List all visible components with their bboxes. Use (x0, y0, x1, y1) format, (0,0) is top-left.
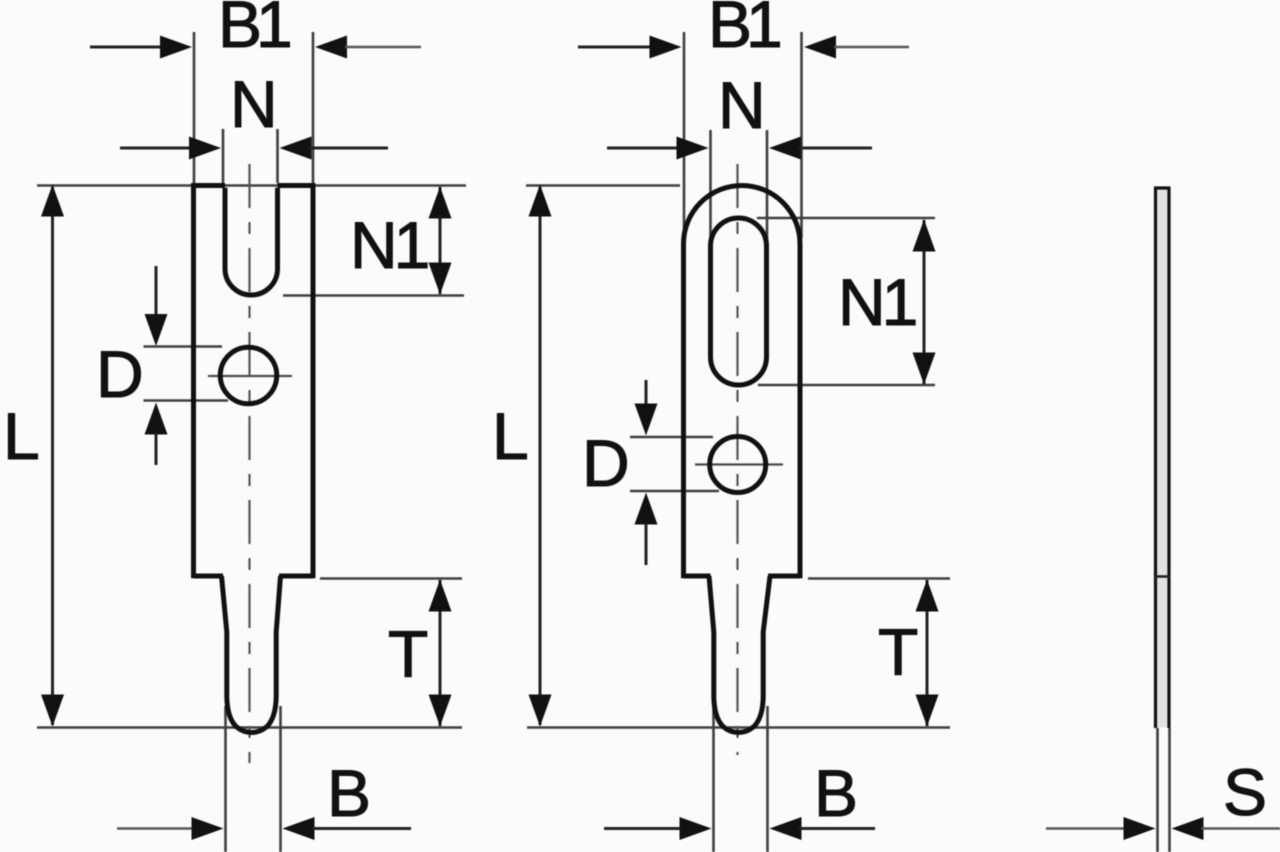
vertical centerline (dash-dot) (248, 164, 250, 763)
dimension N1 top arrowhead (middle) (913, 220, 936, 252)
dimension L dimension line shaft (middle) (539, 187, 542, 725)
dimension B left arrowhead (192, 817, 224, 840)
dimension L top arrowhead (middle) (529, 185, 552, 217)
tab body outline: top edge right segment (278, 183, 316, 188)
svg-text:N1: N1 (838, 265, 916, 339)
dimension T bottom arrowhead (429, 695, 452, 727)
dimension B dimension line left shaft (middle) (604, 827, 681, 830)
dimension D upper arrowhead (pointing down) (145, 314, 168, 346)
svg-text:L: L (3, 399, 40, 473)
dimension T top extension line (middle) (808, 577, 950, 580)
closed oval slot outline (middle) (711, 218, 767, 385)
dimension N1 bottom extension line (middle) (758, 384, 935, 387)
dimension N1 bottom arrowhead (429, 263, 452, 295)
svg-text:S: S (1223, 755, 1267, 829)
dimension T top arrowhead (429, 580, 452, 612)
dimension L bottom arrowhead (middle) (529, 695, 552, 727)
dimension N left extension line (222, 129, 225, 183)
dimension T top arrowhead (middle) (916, 580, 939, 612)
dimension S left arrowhead (1124, 817, 1156, 840)
dimension B right arrowhead (middle) (770, 817, 802, 840)
hole horizontal centerline (middle) (695, 463, 783, 465)
mounting hole (middle) (710, 437, 766, 493)
dimension B1 dimension line right shaft (345, 46, 421, 49)
dimension N right arrowhead (middle) (769, 137, 801, 160)
dimension T dimension line shaft (439, 580, 442, 726)
dimension B left arrowhead (middle) (680, 817, 712, 840)
side view step tick mark (1155, 575, 1171, 578)
side view top edge (1154, 186, 1171, 189)
dimension B1 dimension line left shaft (90, 46, 166, 49)
dimension N dimension line right shaft (309, 147, 388, 150)
dimension N dimension line right shaft (middle) (799, 147, 872, 150)
dimension N right arrowhead (280, 137, 312, 160)
tab body outline: right edge (311, 183, 316, 578)
side view left edge (1154, 188, 1157, 728)
top extension line (middle L datum) (526, 184, 680, 187)
dimension B1 right extension line (middle) (800, 32, 803, 238)
dimension N left arrowhead (middle) (677, 137, 709, 160)
dimension N1 top arrowhead (429, 187, 452, 219)
dimension B1 left arrowhead (160, 36, 192, 59)
bottom extension line (L and T datum) (37, 726, 462, 729)
tab body outline with rounded top (middle) (684, 186, 801, 579)
dimension N left extension line (middle) (709, 130, 712, 244)
dimension N1 bottom arrowhead (middle) (913, 353, 936, 385)
dimension B right extension line (middle) (766, 706, 769, 852)
dimension B dimension line left shaft (117, 827, 194, 830)
svg-text:L: L (492, 399, 529, 473)
open U slot outline (225, 188, 278, 295)
dimension D upper arrow shaft (155, 266, 158, 320)
solder pin outline (222, 576, 281, 733)
tab body outline: left edge (191, 183, 196, 578)
dimension N left arrowhead (189, 137, 221, 160)
dimension D bottom extension line (middle) (630, 490, 719, 493)
dimension N dimension line left shaft (120, 147, 193, 150)
dimension B right arrowhead (283, 817, 315, 840)
dimension D top extension line (144, 345, 223, 348)
svg-text:B: B (814, 756, 858, 830)
dimension B1 dimension line right shaft (middle) (834, 46, 909, 49)
dimension B right extension line (279, 706, 282, 852)
dimension N right extension line (276, 129, 279, 183)
dimension B1 left arrowhead (middle) (650, 36, 682, 59)
dimension N dimension line left shaft (middle) (607, 147, 681, 150)
dimension D bottom extension line (144, 399, 229, 402)
dimension D lower arrowhead (middle, pointing up) (635, 493, 658, 525)
dimension T top extension line (320, 577, 462, 580)
dimension L dimension line shaft (51, 187, 54, 725)
tab body outline: top edge left segment (191, 183, 225, 188)
svg-text:B1: B1 (218, 0, 290, 61)
tab body outline: left step (194, 574, 224, 579)
side view right edge (1167, 188, 1170, 728)
svg-text:D: D (96, 337, 144, 411)
dimension T bottom arrowhead (middle) (916, 695, 939, 727)
dimension N1 bottom extension line (283, 294, 464, 297)
solder pin outline (middle) (709, 576, 770, 733)
dimension B1 right arrowhead (315, 36, 347, 59)
side view interior fill (1157, 190, 1168, 728)
dimension N right extension line (middle) (766, 130, 769, 244)
dimension D upper arrowhead (middle, pointing down) (635, 404, 658, 436)
dimension D top extension line (middle) (630, 436, 713, 439)
svg-text:N1: N1 (350, 208, 428, 282)
dimension S dimension line left shaft (1046, 827, 1124, 830)
top extension line (L and N1 datum) (37, 184, 466, 187)
dimension L bottom arrowhead (41, 695, 64, 727)
dimension S dimension line right shaft (1201, 827, 1280, 830)
hole horizontal centerline (208, 375, 292, 377)
svg-text:T: T (388, 617, 428, 691)
svg-text:N: N (718, 68, 766, 142)
vertical centerline (middle, dash-dot) (736, 164, 738, 755)
dimension S right extension line (1168, 728, 1171, 852)
dimension N1 top extension line (middle) (757, 217, 935, 220)
dimension L top arrowhead (41, 185, 64, 217)
svg-text:N: N (230, 67, 278, 141)
dimension B dimension line right shaft (312, 827, 411, 830)
dimension B1 right extension line (312, 32, 315, 183)
svg-text:T: T (878, 615, 918, 689)
dimension B1 left extension line (middle) (683, 32, 686, 238)
mounting hole (220, 347, 277, 404)
dimension T dimension line shaft (middle) (926, 580, 929, 726)
dimension B1 left extension line (193, 32, 196, 183)
dimension B dimension line right shaft (middle) (799, 827, 875, 830)
left step (middle) (684, 574, 711, 579)
dimension D lower arrowhead (pointing up) (145, 403, 168, 435)
dimension D upper arrow shaft (middle) (645, 380, 648, 410)
dimension B left extension line (224, 706, 227, 852)
bottom extension line (middle L and T datum) (527, 726, 950, 729)
dimension S left extension line (1156, 728, 1159, 852)
dimension B1 dimension line left shaft (middle) (578, 46, 652, 49)
dimension S right arrowhead (1172, 817, 1204, 840)
right step (middle) (768, 574, 800, 579)
svg-text:D: D (582, 426, 630, 500)
dimension D lower arrow shaft (middle) (645, 523, 648, 565)
dimension D lower arrow shaft (155, 433, 158, 465)
svg-text:B1: B1 (708, 0, 780, 61)
tab body outline: right step (279, 574, 313, 579)
svg-text:B: B (327, 756, 371, 830)
dimension N1 dimension line shaft (439, 187, 442, 294)
dimension B left extension line (middle) (712, 706, 715, 852)
dimension N1 dimension line shaft (middle) (923, 220, 926, 384)
dimension B1 right arrowhead (middle) (804, 36, 836, 59)
